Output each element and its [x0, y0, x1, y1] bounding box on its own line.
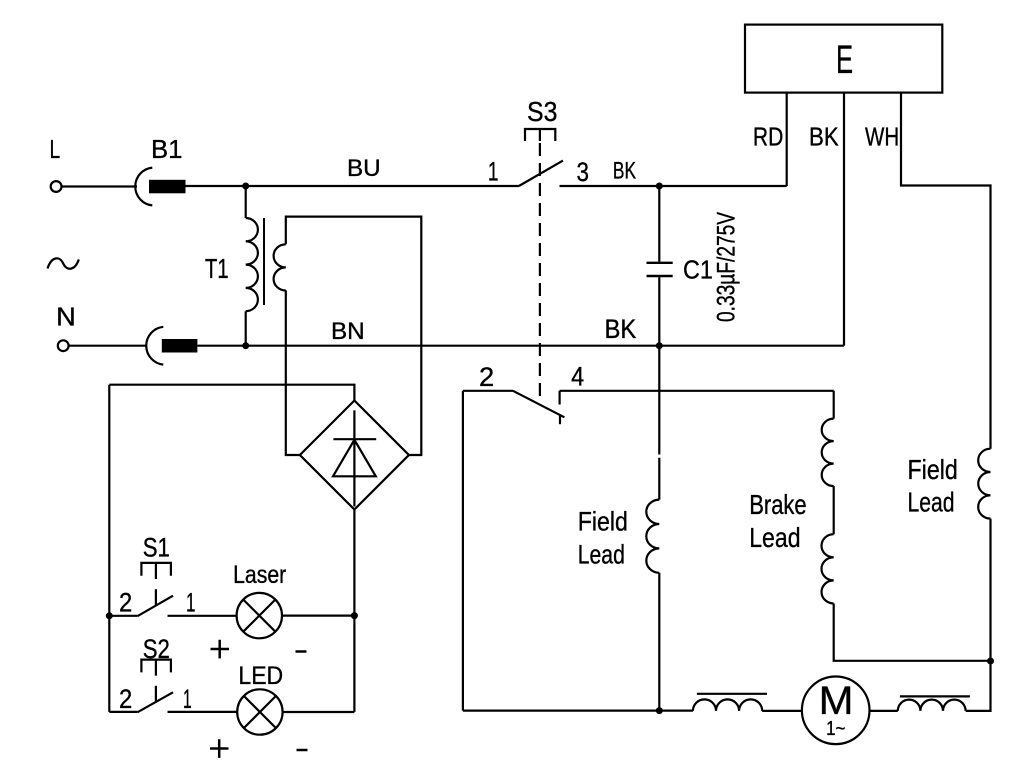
- switch S1 actuator dash: [155, 589, 157, 606]
- wire T1 secondary top to bridge right: [286, 217, 422, 455]
- svg-text:1: 1: [186, 587, 195, 617]
- wire S2 to LED lamp: [168, 711, 238, 713]
- inductor brake lead upper: [822, 419, 834, 487]
- svg-text:S1: S1: [143, 533, 170, 563]
- wire T1 primary bottom lead: [245, 311, 247, 345]
- svg-text:L: L: [50, 134, 61, 164]
- wire BK from E: [843, 93, 845, 346]
- inductor choke right: [898, 700, 966, 711]
- wire laser box left: [108, 385, 110, 712]
- node junction field lead bottom: [656, 707, 663, 714]
- wire laser box top: [109, 385, 354, 401]
- wire laser lamp to right: [282, 614, 354, 616]
- wire field lead right down: [989, 519, 991, 661]
- wire brake lead middle: [833, 486, 835, 534]
- svg-text:Laser: Laser: [233, 561, 286, 589]
- switch S3 button bracket: [525, 129, 555, 141]
- svg-text:BK: BK: [809, 121, 839, 151]
- svg-text:Field: Field: [908, 454, 958, 485]
- node junction S1 row: [106, 612, 113, 619]
- wire brake lead bottom: [834, 604, 991, 661]
- inductor field lead right: [978, 449, 990, 519]
- wire RD: [786, 93, 788, 186]
- fuse B1 arc: [135, 168, 152, 206]
- switch S2 actuator dash: [155, 686, 157, 703]
- wire WH from E: [901, 93, 991, 449]
- svg-text:BK: BK: [605, 314, 637, 344]
- switch S1 button bracket: [141, 563, 171, 579]
- choke right core bar: [900, 695, 970, 697]
- wire S1 to laser lamp: [168, 615, 237, 617]
- wire S3 pin3 to RD (BK): [560, 185, 787, 187]
- node junction brake/field right: [987, 658, 994, 665]
- switch S2 blade: [138, 692, 173, 712]
- fuse N arc: [146, 327, 163, 365]
- svg-text:1~: 1~: [826, 718, 845, 740]
- wire bottom line left: [463, 709, 693, 711]
- svg-text:Lead: Lead: [578, 540, 625, 570]
- label plus laser: [211, 640, 230, 659]
- switch S3 pole 2-4 contact post: [558, 391, 560, 405]
- switch S3 actuator dashed line: [539, 143, 541, 401]
- node N terminal: [58, 340, 69, 351]
- svg-text:BK: BK: [613, 158, 636, 185]
- svg-text:BU: BU: [347, 155, 381, 182]
- wire C1 top lead: [658, 186, 660, 262]
- svg-text:1: 1: [488, 156, 499, 186]
- switch S3 pole 2-4 blade: [513, 391, 564, 418]
- svg-text:E: E: [836, 38, 853, 82]
- svg-text:2: 2: [119, 587, 132, 617]
- fuse N body: [162, 339, 198, 353]
- wire S2 left: [109, 711, 137, 713]
- svg-text:BN: BN: [331, 318, 365, 345]
- wire motor box left edge: [462, 391, 464, 711]
- node junction C1 bottom: [656, 342, 663, 349]
- fuse B1 body: [149, 180, 186, 194]
- inductor choke left: [693, 699, 762, 711]
- svg-text:S3: S3: [527, 96, 557, 127]
- bridge diode bar and axis: [333, 410, 376, 506]
- svg-text:4: 4: [571, 362, 584, 392]
- label plus LED: [210, 739, 229, 758]
- wire field lead left lower: [658, 573, 660, 711]
- wire B1 to S3 (BU): [186, 185, 519, 187]
- wire S1 left: [109, 615, 137, 617]
- node junction laser right: [351, 612, 358, 619]
- node junction T1 primary top: [242, 183, 249, 190]
- transformer T1 primary winding: [246, 218, 258, 311]
- svg-text:Lead: Lead: [749, 522, 800, 553]
- wire choke left to motor: [762, 710, 802, 712]
- svg-text:RD: RD: [753, 121, 783, 151]
- motor M1 circle: [802, 677, 870, 745]
- transformer T1 core: [263, 218, 265, 305]
- capacitor C1 plates: [647, 263, 673, 276]
- wire motor to choke right: [870, 710, 898, 712]
- svg-text:1: 1: [183, 684, 192, 714]
- lamp Laser: [237, 593, 282, 638]
- wire BN line: [197, 345, 843, 347]
- svg-text:LED: LED: [238, 662, 283, 690]
- switch S1 blade: [138, 596, 173, 616]
- wire L terminal to B1: [62, 185, 138, 187]
- wire T1 secondary bottom to bridge left: [286, 290, 300, 455]
- svg-text:3: 3: [577, 157, 590, 187]
- switch S2 button bracket: [141, 660, 171, 676]
- label minus laser: [296, 650, 307, 653]
- wire field lead left upper: [658, 346, 660, 500]
- svg-text:C1: C1: [683, 255, 713, 285]
- svg-text:Brake: Brake: [749, 489, 806, 520]
- brush unit E box: [745, 25, 942, 93]
- svg-text:WH: WH: [865, 121, 899, 151]
- svg-text:2: 2: [119, 684, 132, 714]
- wire S3 pin4 to brake lead: [560, 390, 834, 392]
- svg-text:2: 2: [479, 362, 494, 392]
- switch S3 pole 1-3 blade: [519, 161, 563, 186]
- inductor field lead left: [646, 500, 659, 573]
- bridge diode triangle: [333, 440, 376, 477]
- wire motor box top to S3 pole2: [463, 390, 513, 392]
- svg-text:Field: Field: [578, 506, 628, 536]
- lamp LED: [237, 689, 282, 734]
- wire field lead right to choke: [966, 661, 991, 711]
- wire bridge bottom to LED row: [353, 510, 355, 712]
- wire N terminal to fuse: [69, 345, 146, 347]
- AC source symbol ~: [48, 258, 79, 268]
- node L terminal: [51, 181, 62, 192]
- choke left core bar: [697, 693, 767, 695]
- svg-text:M: M: [819, 679, 854, 723]
- svg-text:B1: B1: [151, 134, 183, 164]
- inductor brake lead lower: [822, 534, 834, 603]
- svg-text:N: N: [56, 302, 76, 332]
- svg-text:T1: T1: [205, 253, 229, 284]
- wire brake lead top: [833, 391, 835, 419]
- wire C1 bottom lead: [658, 277, 660, 346]
- wire LED lamp to right: [283, 711, 355, 713]
- node junction C1 top: [656, 183, 663, 190]
- wire T1 primary top lead: [245, 186, 247, 218]
- svg-text:Lead: Lead: [908, 487, 955, 518]
- bridge rectifier outline: [300, 401, 409, 510]
- transformer T1 secondary winding: [274, 244, 286, 290]
- node junction T1 primary bottom: [242, 342, 249, 349]
- svg-text:0.33µF/275V: 0.33µF/275V: [712, 212, 740, 322]
- label minus LED: [297, 749, 308, 752]
